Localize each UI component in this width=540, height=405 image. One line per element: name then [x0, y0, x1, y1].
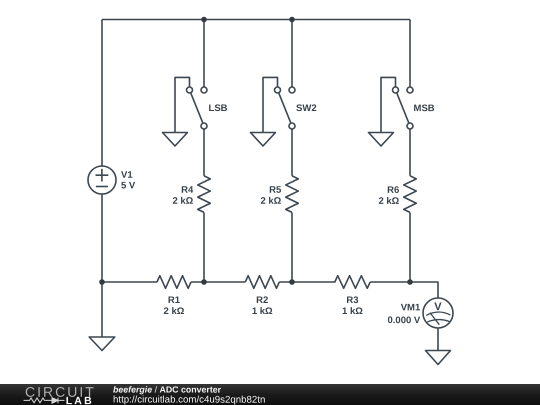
- CircuitLab logo squiggle resistor and diode: [24, 398, 65, 404]
- ground of SW1: [163, 133, 188, 147]
- wire left vertical to V1: [101, 20, 103, 167]
- wire SW1 to R4: [203, 129, 205, 176]
- value 5 V: [121, 180, 136, 191]
- junction bottom bus at V1: [99, 279, 105, 285]
- svg-text:V1: V1: [121, 170, 133, 181]
- wire top bus: [102, 19, 410, 21]
- value R6 2 kOhm: [378, 196, 399, 207]
- wire R5 to bottom bus: [291, 213, 293, 283]
- label R2: [256, 295, 268, 306]
- svg-text:R1: R1: [168, 295, 181, 306]
- wire switch SW2 top lead: [291, 20, 293, 88]
- resistor R1: [157, 276, 191, 289]
- wire to ground G1: [101, 282, 103, 337]
- CircuitLab logo CIRCUIT: [25, 384, 96, 400]
- svg-text:R6: R6: [387, 185, 399, 196]
- wire switch SW3 top lead: [409, 20, 411, 88]
- junction node B: [289, 279, 295, 285]
- svg-text:R4: R4: [181, 185, 194, 196]
- wire VM1 to ground: [437, 328, 439, 351]
- label R3: [346, 295, 358, 306]
- resistor R3: [335, 276, 370, 289]
- svg-text:MSB: MSB: [414, 103, 435, 114]
- svg-text:V: V: [434, 301, 442, 313]
- label R4: [181, 185, 194, 196]
- value R3 1 kOhm: [342, 306, 363, 317]
- switch SW2: [263, 77, 295, 132]
- resistor R2: [245, 276, 279, 289]
- junction node A: [201, 279, 207, 285]
- svg-text:http://circuitlab.com/c4u9s2qn: http://circuitlab.com/c4u9s2qnb82tn: [113, 395, 265, 405]
- resistor R6: [404, 176, 417, 213]
- svg-text:2 kΩ: 2 kΩ: [172, 196, 193, 207]
- svg-text:2 kΩ: 2 kΩ: [378, 196, 399, 207]
- svg-text:2 kΩ: 2 kΩ: [260, 196, 281, 207]
- CircuitLab logo LAB: [66, 395, 94, 405]
- resistor R5: [286, 176, 299, 213]
- footer title beefergie / ADC converter: [113, 385, 222, 395]
- value R1 2 kOhm: [164, 306, 185, 317]
- junction top node at SW2: [289, 17, 295, 23]
- svg-text:LAB: LAB: [66, 395, 94, 405]
- wire R1 to node B: [191, 281, 245, 283]
- ground of SW3: [369, 133, 394, 147]
- wire bottom bus left to R1: [102, 281, 157, 283]
- wire R4 to bottom bus: [203, 213, 205, 283]
- value R4 2 kOhm: [172, 196, 193, 207]
- wire R2 to node C: [279, 281, 335, 283]
- wire switch SW1 top lead: [203, 20, 205, 88]
- value R2 1 kOhm: [252, 306, 273, 317]
- footer bar: [0, 384, 540, 405]
- junction node C: [407, 279, 413, 285]
- svg-text:LSB: LSB: [209, 103, 228, 114]
- label R5: [269, 185, 282, 196]
- value VM1 0.000 V: [387, 315, 420, 326]
- svg-text:R2: R2: [256, 295, 268, 306]
- label SW2: [296, 103, 317, 114]
- svg-text:1 kΩ: 1 kΩ: [342, 306, 363, 317]
- switch SW3 (MSB): [381, 77, 413, 132]
- switch SW1 (LSB): [175, 77, 207, 132]
- voltage source V1: [88, 166, 116, 194]
- label LSB: [209, 103, 228, 114]
- wire SW3 to R6: [409, 129, 411, 176]
- ground of VM1: [426, 351, 451, 365]
- junction top node at SW1: [201, 17, 207, 23]
- wire R3 to voltmeter branch: [370, 282, 438, 298]
- svg-text:1 kΩ: 1 kΩ: [252, 306, 273, 317]
- svg-text:R5: R5: [269, 185, 282, 196]
- resistor R4: [198, 176, 211, 213]
- voltmeter VM1: [423, 298, 453, 328]
- ground G1: [89, 337, 115, 351]
- label V1: [121, 170, 133, 181]
- footer url: [113, 395, 265, 405]
- svg-text:5 V: 5 V: [121, 180, 136, 191]
- svg-text:0.000 V: 0.000 V: [387, 315, 420, 326]
- label R1: [168, 295, 181, 306]
- svg-text:R3: R3: [346, 295, 358, 306]
- svg-text:SW2: SW2: [296, 103, 317, 114]
- value R5 2 kOhm: [260, 196, 281, 207]
- wire R6 to bottom bus: [409, 213, 411, 283]
- svg-text:2 kΩ: 2 kΩ: [164, 306, 185, 317]
- label VM1: [401, 302, 421, 313]
- svg-text:VM1: VM1: [401, 302, 421, 313]
- wire V1 bottom to bottom bus: [101, 194, 103, 282]
- ground of SW2: [251, 133, 276, 147]
- label MSB: [414, 103, 435, 114]
- label V inside VM1: [434, 301, 442, 313]
- svg-text:beefergie / ADC converter: beefergie / ADC converter: [113, 385, 222, 395]
- label R6: [387, 185, 399, 196]
- wire SW2 to R5: [291, 129, 293, 176]
